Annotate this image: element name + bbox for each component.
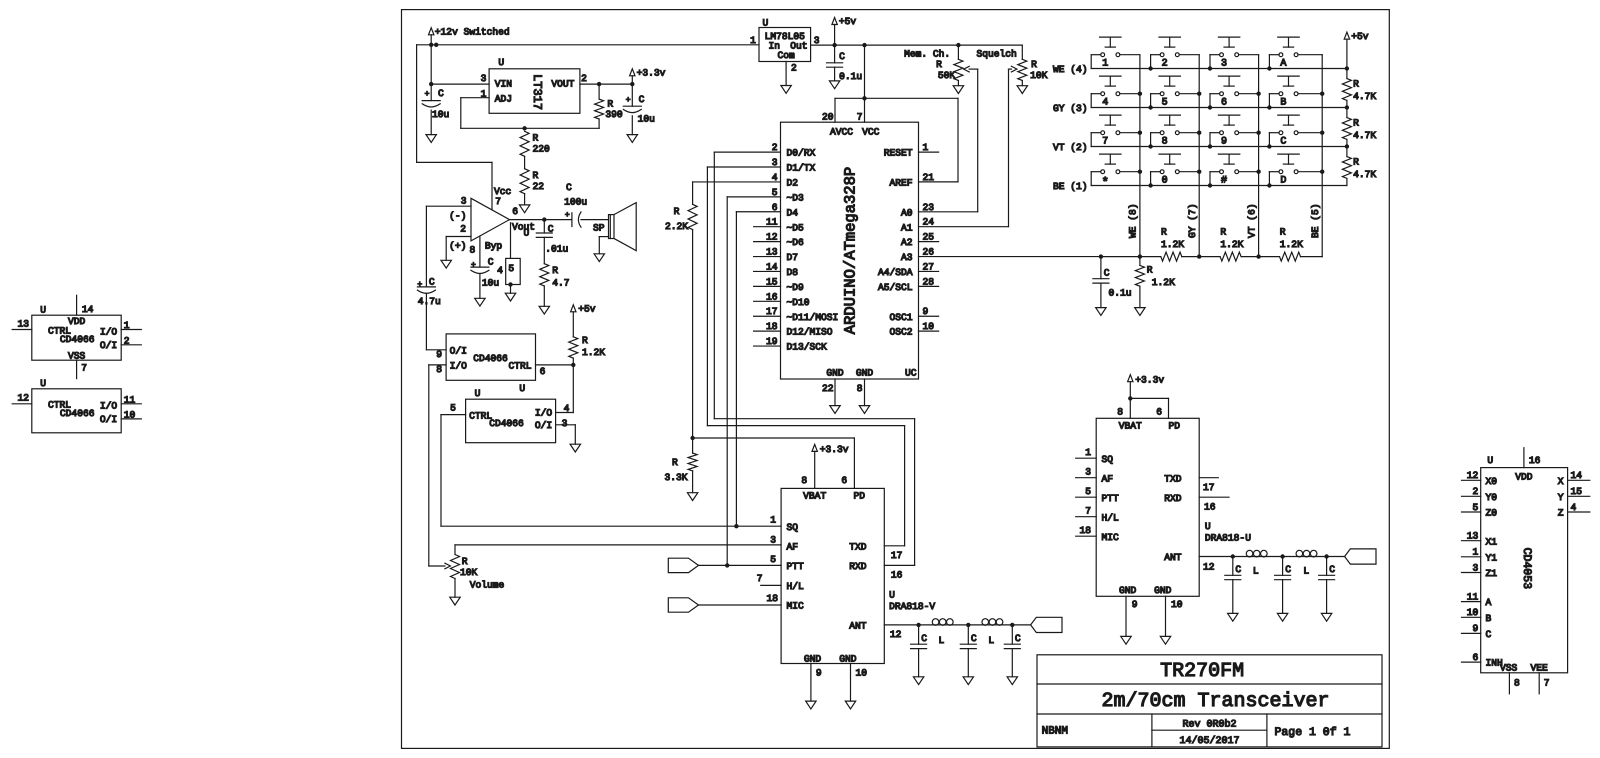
pushbutton B — [1269, 76, 1322, 109]
pushbutton 0 — [1151, 154, 1200, 187]
svg-text:Volume: Volume — [470, 580, 505, 591]
pin 7 VEE wire — [1539, 673, 1549, 694]
svg-text:~D6: ~D6 — [787, 237, 805, 248]
svg-text:GND: GND — [1154, 585, 1172, 596]
svg-text:1: 1 — [770, 515, 776, 526]
svg-text:10u: 10u — [482, 277, 499, 288]
svg-text:C: C — [971, 633, 977, 644]
analog switch U CD4066 (far left upper) — [32, 305, 121, 362]
svg-text:I/O: I/O — [100, 327, 118, 338]
svg-text:D0/RX: D0/RX — [787, 148, 816, 159]
junction dots keypad — [1138, 66, 1325, 187]
svg-text:MIC: MIC — [1102, 532, 1120, 543]
svg-text:+: + — [626, 96, 631, 105]
pin stubs right (CD4053) — [1558, 470, 1590, 518]
pushbutton 7 — [1091, 115, 1140, 148]
svg-text:15: 15 — [1571, 486, 1583, 497]
svg-text:8: 8 — [1162, 137, 1168, 148]
pin stubs D5-D13 — [754, 142, 839, 353]
border frame — [402, 10, 1390, 749]
svg-text:PD: PD — [854, 491, 866, 502]
speaker SP — [593, 203, 636, 251]
svg-text:D12/MISO: D12/MISO — [787, 327, 833, 338]
svg-text:14: 14 — [766, 261, 778, 272]
svg-text:2: 2 — [581, 73, 587, 84]
svg-text:X0: X0 — [1486, 476, 1498, 487]
svg-text:INH: INH — [1486, 658, 1503, 669]
svg-text:220: 220 — [533, 144, 551, 155]
pushbutton A — [1269, 37, 1322, 70]
ground (10K) — [1017, 81, 1027, 94]
microcontroller U ARDUINO/ATmega328P — [781, 122, 919, 379]
ground (U GND10) — [1160, 636, 1170, 644]
ground (col1 R) — [1135, 308, 1145, 316]
svg-text:5: 5 — [1162, 98, 1168, 109]
svg-text:RESET: RESET — [884, 148, 913, 159]
svg-text:+3.3v: +3.3v — [820, 444, 849, 455]
svg-text:VBAT: VBAT — [803, 491, 826, 502]
svg-text:100u: 100u — [564, 197, 587, 208]
stub RXD (U) — [1199, 497, 1229, 513]
svg-text:20: 20 — [822, 112, 834, 123]
wire Byp pin 8 — [479, 236, 481, 267]
pin 6 label — [540, 366, 546, 377]
svg-text:R: R — [1353, 78, 1359, 89]
svg-text:10: 10 — [1171, 599, 1183, 610]
title 14/05/2017 — [1179, 735, 1239, 747]
svg-text:PTT: PTT — [1102, 493, 1120, 504]
svg-text:13: 13 — [766, 247, 778, 258]
svg-text:6: 6 — [540, 366, 546, 377]
pin 2 O/I wire — [121, 335, 141, 346]
pin 16 VDD wire — [1524, 448, 1541, 468]
pin 3 label — [562, 418, 568, 429]
title Rev 0R0b2 — [1182, 719, 1236, 731]
resistor R 4.7 — [540, 264, 570, 289]
svg-text:1.2K: 1.2K — [1280, 239, 1303, 250]
svg-text:10u: 10u — [432, 109, 449, 120]
svg-text:D13/SCK: D13/SCK — [787, 342, 828, 353]
wire keypad column BE (5) — [1321, 55, 1323, 257]
title Page 1 0f 1 — [1275, 726, 1351, 739]
ground (R22) — [519, 194, 529, 213]
wire keypad row WE (4) — [1053, 64, 1347, 75]
pin 2 Com wire — [785, 62, 787, 86]
junction dot +3.3v — [630, 82, 634, 86]
svg-text:DRA818-U: DRA818-U — [1205, 533, 1251, 544]
op-amp U (audio amp) — [449, 186, 535, 256]
svg-text:U: U — [763, 18, 769, 29]
svg-text:Z: Z — [1558, 508, 1564, 519]
svg-text:25: 25 — [923, 232, 935, 243]
svg-text:7: 7 — [1085, 506, 1091, 517]
svg-text:9: 9 — [1221, 137, 1227, 148]
capacitor C 0.1u (5v) — [827, 45, 863, 82]
pin labels top (U) — [1117, 406, 1162, 417]
wire keypad row VT (2) — [1053, 142, 1347, 153]
pushbutton 8 — [1151, 115, 1200, 148]
stub H/L (V) — [761, 584, 781, 586]
svg-text:(+): (+) — [449, 241, 466, 252]
svg-text:13: 13 — [1467, 531, 1479, 542]
capacitors C + grounds (U filter) — [1225, 557, 1335, 622]
wire D2 net — [693, 182, 781, 204]
power flag +3.3v (U) — [1128, 374, 1165, 398]
svg-text:D7: D7 — [787, 252, 799, 263]
pushbutton 9 — [1210, 115, 1259, 148]
pushbutton 5 — [1151, 76, 1200, 109]
svg-text:A: A — [1280, 59, 1286, 70]
svg-text:R: R — [533, 133, 539, 144]
svg-text:0.1u: 0.1u — [839, 71, 862, 82]
junction dot pot rail — [956, 43, 960, 47]
svg-text:+: + — [425, 90, 430, 99]
svg-text:A5/SCL: A5/SCL — [878, 282, 913, 293]
ground (pin3) — [570, 444, 580, 452]
junction dots ANT filter V — [916, 623, 1014, 627]
svg-text:+12v Switched: +12v Switched — [435, 26, 510, 37]
ground (speaker) — [594, 254, 604, 262]
svg-text:R: R — [936, 59, 942, 70]
wire D4 net — [736, 212, 780, 526]
capacitor C 100u — [564, 182, 587, 227]
svg-text:RXD: RXD — [849, 561, 867, 572]
wire pin 4 — [497, 223, 510, 276]
svg-text:8: 8 — [470, 244, 476, 255]
svg-text:Z1: Z1 — [1486, 568, 1498, 579]
svg-text:C: C — [1015, 633, 1021, 644]
pin 10 O/I wire — [121, 409, 141, 420]
svg-text:~D11/MOSI: ~D11/MOSI — [787, 312, 839, 323]
svg-text:R: R — [582, 335, 588, 346]
svg-text:6: 6 — [1473, 652, 1479, 663]
connector MIC — [668, 598, 781, 612]
svg-text:+: + — [471, 261, 476, 270]
svg-text:3: 3 — [562, 418, 568, 429]
ground (GND8) — [859, 406, 869, 414]
power flag +5v (keypad) — [1344, 31, 1369, 68]
wire PD pin6 — [801, 475, 847, 486]
analog switch U CD4066 (lower) — [466, 388, 556, 443]
svg-text:R: R — [672, 457, 678, 468]
svg-text:O/I: O/I — [450, 345, 467, 356]
svg-text:+: + — [565, 211, 570, 220]
svg-text:ANT: ANT — [849, 621, 867, 632]
pin 12 CTRL wire — [12, 393, 32, 404]
svg-text:X: X — [1558, 476, 1564, 487]
svg-text:3: 3 — [461, 195, 467, 206]
svg-text:R: R — [552, 265, 558, 276]
svg-text:8: 8 — [1117, 406, 1123, 417]
svg-text:4: 4 — [497, 265, 503, 276]
power flag +5v (1.2K) — [571, 303, 596, 337]
svg-text:23: 23 — [923, 202, 935, 213]
svg-text:VEE: VEE — [1531, 663, 1549, 674]
svg-text:CD4066: CD4066 — [60, 334, 95, 345]
svg-text:1.2K: 1.2K — [1220, 239, 1243, 250]
svg-text:+3.3v: +3.3v — [1135, 374, 1164, 385]
svg-text:C: C — [488, 256, 494, 267]
ground (jumper) — [505, 285, 515, 302]
svg-text:Z0: Z0 — [1486, 508, 1498, 519]
potentiometer R 50K Mem. Ch. — [904, 45, 978, 81]
analog switch U CD4066 (far left lower) — [32, 378, 121, 433]
wire +12v rail — [417, 45, 759, 163]
junction dot +3.3 (U) — [1128, 396, 1132, 400]
svg-text:VBAT: VBAT — [1119, 421, 1142, 432]
ground (3.3v cap) — [627, 116, 637, 143]
svg-text:19: 19 — [766, 336, 778, 347]
svg-text:390: 390 — [605, 109, 623, 120]
svg-text:I/O: I/O — [535, 408, 553, 419]
svg-text:21: 21 — [923, 172, 935, 183]
svg-text:3: 3 — [1473, 562, 1479, 573]
svg-text:1: 1 — [750, 35, 756, 46]
svg-text:MIC: MIC — [787, 601, 805, 612]
svg-text:16: 16 — [891, 570, 903, 581]
connector antenna U — [1345, 549, 1376, 564]
capacitors C + grounds (V filter) — [911, 625, 1021, 685]
svg-text:C: C — [566, 182, 572, 193]
svg-text:12: 12 — [1467, 470, 1479, 481]
wire pullup to pin4 — [556, 365, 574, 413]
svg-text:0.1u: 0.1u — [1109, 288, 1132, 299]
power flag +3.3v (LT317) — [630, 68, 666, 84]
resistor R 390 — [595, 84, 623, 128]
junction dot ADJ divider — [522, 126, 526, 130]
svg-text:ARDUINO/ATmega328P: ARDUINO/ATmega328P — [842, 167, 860, 334]
svg-text:TXD: TXD — [1164, 473, 1182, 484]
svg-text:17: 17 — [1203, 482, 1215, 493]
svg-text:5: 5 — [772, 187, 778, 198]
svg-text:11: 11 — [766, 217, 778, 228]
svg-text:GND: GND — [1119, 585, 1137, 596]
svg-text:A1: A1 — [901, 222, 913, 233]
ground (Byp cap) — [475, 298, 485, 306]
svg-text:6: 6 — [841, 475, 847, 486]
pin 13 CTRL wire — [12, 318, 32, 329]
svg-text:AF: AF — [787, 541, 799, 552]
svg-text:U: U — [524, 228, 530, 239]
svg-text:4.7K: 4.7K — [1353, 91, 1376, 102]
svg-text:11: 11 — [1467, 591, 1479, 602]
pin num labels V — [757, 515, 903, 640]
svg-text:16: 16 — [1529, 455, 1541, 466]
pushbutton * — [1091, 154, 1140, 189]
capacitor C 10u (input) — [422, 84, 449, 120]
svg-text:7: 7 — [857, 112, 863, 123]
svg-text:A3: A3 — [901, 252, 913, 263]
analog switch U CD4066 (upper) — [446, 334, 535, 394]
svg-text:D8: D8 — [787, 267, 799, 278]
svg-text:Y1: Y1 — [1486, 552, 1498, 563]
svg-text:11: 11 — [124, 394, 136, 405]
svg-text:U: U — [498, 57, 504, 68]
svg-text:B: B — [1486, 613, 1492, 624]
wire keypad bus A3 — [919, 256, 1140, 258]
ground (R3.3K) — [687, 471, 697, 501]
wire R2.2K to PD — [693, 230, 855, 489]
wire to R4.7 — [543, 237, 545, 263]
resistor R 1.2K (col1 pulldown) — [1135, 257, 1175, 308]
svg-text:Y: Y — [1558, 492, 1564, 503]
svg-text:(-): (-) — [449, 211, 466, 222]
resistor R 1.2K (pullup) — [569, 335, 605, 365]
svg-text:Y0: Y0 — [1486, 492, 1498, 503]
ground (input cap) — [426, 110, 436, 142]
svg-text:+5v: +5v — [578, 303, 596, 314]
junction dot bus cap — [1099, 254, 1103, 258]
junction dot VIN — [429, 82, 433, 86]
svg-text:7: 7 — [1544, 678, 1550, 689]
svg-text:2: 2 — [1473, 486, 1479, 497]
ground (50K) — [953, 81, 963, 94]
svg-text:UC: UC — [905, 368, 917, 379]
svg-text:TR270FM: TR270FM — [1160, 660, 1244, 683]
inductor L (U filter 1) — [1246, 550, 1267, 576]
svg-text:R: R — [1220, 227, 1226, 238]
svg-text:22: 22 — [533, 181, 545, 192]
svg-text:14/05/2017: 14/05/2017 — [1179, 735, 1239, 747]
junction dot jumper — [508, 282, 512, 286]
pin 4 label — [564, 403, 570, 414]
svg-text:2: 2 — [124, 335, 130, 346]
svg-text:1.2K: 1.2K — [1161, 239, 1184, 250]
title NBNM — [1042, 726, 1068, 738]
potentiometer R 10K Squelch — [977, 45, 1048, 81]
svg-text:8: 8 — [1514, 678, 1520, 689]
svg-text:15: 15 — [766, 276, 778, 287]
wire Vout — [510, 219, 572, 221]
ground (U GND9) — [1121, 636, 1131, 644]
svg-text:4.7u: 4.7u — [418, 296, 441, 307]
wire op-amp in- — [426, 206, 471, 287]
svg-text:*: * — [1102, 175, 1109, 189]
pin 10 GND wire (U) — [1166, 596, 1183, 636]
svg-text:12: 12 — [890, 629, 902, 640]
svg-text:5: 5 — [1085, 486, 1091, 497]
svg-text:10: 10 — [923, 321, 935, 332]
svg-text:L: L — [939, 635, 945, 646]
pushbutton 4 — [1091, 76, 1140, 109]
svg-text:R: R — [533, 170, 539, 181]
title 2m/70cm Transceiver — [1101, 690, 1329, 713]
svg-text:SP: SP — [593, 223, 605, 234]
svg-text:C: C — [839, 51, 845, 62]
svg-text:6: 6 — [772, 202, 778, 213]
svg-text:3: 3 — [772, 157, 778, 168]
svg-text:PTT: PTT — [787, 561, 805, 572]
svg-text:+5v: +5v — [839, 16, 857, 27]
junction dot PTT — [725, 563, 729, 567]
svg-text:C: C — [1486, 629, 1492, 640]
svg-text:R: R — [607, 98, 613, 109]
svg-text:ADJ: ADJ — [495, 93, 512, 104]
ground (bus cap) — [1096, 308, 1106, 316]
svg-text:Byp: Byp — [485, 241, 503, 252]
power flag +5v (78L05) — [832, 16, 857, 45]
junction dot bus col1 — [1138, 254, 1142, 258]
junction dot +5v — [832, 43, 836, 47]
svg-text:3: 3 — [814, 35, 820, 46]
resistor R 2.2K — [665, 204, 697, 232]
wire pin 3 gnd — [556, 425, 576, 444]
svg-text:L: L — [1303, 566, 1309, 577]
svg-text:H/L: H/L — [1102, 512, 1120, 523]
svg-text:24: 24 — [923, 217, 935, 228]
pushbutton # — [1210, 154, 1259, 187]
svg-text:C: C — [921, 633, 927, 644]
svg-text:14: 14 — [1571, 470, 1583, 481]
pushbutton C — [1269, 115, 1322, 148]
wire D1/TX net — [707, 167, 904, 546]
pin 2 VOUT label — [581, 73, 587, 84]
svg-text:~D3: ~D3 — [787, 192, 805, 203]
svg-text:17: 17 — [766, 306, 778, 317]
svg-text:DRA818-V: DRA818-V — [889, 601, 935, 612]
svg-text:U: U — [40, 305, 46, 316]
svg-text:SQ: SQ — [1102, 454, 1114, 465]
svg-text:4.7: 4.7 — [552, 278, 569, 289]
pin 9 GND wire (U) — [1126, 596, 1138, 636]
pushbutton D — [1269, 154, 1322, 187]
svg-text:6: 6 — [512, 206, 518, 217]
svg-text:R: R — [1280, 227, 1286, 238]
svg-text:12: 12 — [766, 232, 778, 243]
svg-text:~D9: ~D9 — [787, 282, 805, 293]
junction dots ANT filter U — [1231, 554, 1329, 558]
svg-text:10K: 10K — [460, 567, 478, 578]
svg-text:GND: GND — [856, 368, 874, 379]
ground (Com) — [781, 86, 791, 94]
svg-text:7: 7 — [81, 363, 87, 374]
svg-text:+5v: +5v — [1351, 31, 1369, 42]
svg-text:C: C — [1104, 268, 1110, 279]
svg-text:D1/TX: D1/TX — [787, 163, 816, 174]
power flag +12v Switched — [429, 26, 510, 45]
jumper S (pin 5) — [506, 258, 521, 284]
wire keypad column GY (7) — [1198, 55, 1200, 257]
wire SQ net — [441, 525, 781, 527]
wire pin 9 in — [426, 349, 446, 351]
svg-text:7: 7 — [1102, 137, 1108, 148]
pin 1 I/O wire — [121, 320, 141, 331]
pushbutton 3 — [1210, 37, 1259, 70]
mux U CD4053 — [1481, 455, 1568, 674]
pushbutton 6 — [1210, 76, 1259, 109]
pin 1 ADJ label — [481, 88, 487, 99]
pushbutton 1 — [1091, 37, 1140, 70]
svg-text:Rev 0R0b2: Rev 0R0b2 — [1182, 719, 1236, 731]
pin 2 label — [791, 63, 797, 74]
junction dot CTRL6 — [571, 363, 575, 367]
svg-text:10u: 10u — [638, 114, 655, 125]
stub TXD (U) — [1199, 478, 1218, 494]
svg-text:7: 7 — [757, 573, 763, 584]
pin 3 label — [814, 35, 820, 46]
svg-text:27: 27 — [923, 261, 935, 272]
svg-text:12: 12 — [17, 393, 29, 404]
svg-text:D4: D4 — [787, 207, 799, 218]
pin 5 label — [450, 403, 456, 414]
svg-text:CD4066: CD4066 — [473, 353, 508, 364]
pin 8 GND wire — [857, 379, 865, 406]
ground (V GND10) — [845, 701, 855, 709]
capacitor C 0.1u (bus) — [1093, 257, 1132, 308]
svg-text:LT317: LT317 — [530, 74, 544, 110]
svg-text:17: 17 — [891, 550, 903, 561]
svg-text:C: C — [1329, 564, 1335, 575]
